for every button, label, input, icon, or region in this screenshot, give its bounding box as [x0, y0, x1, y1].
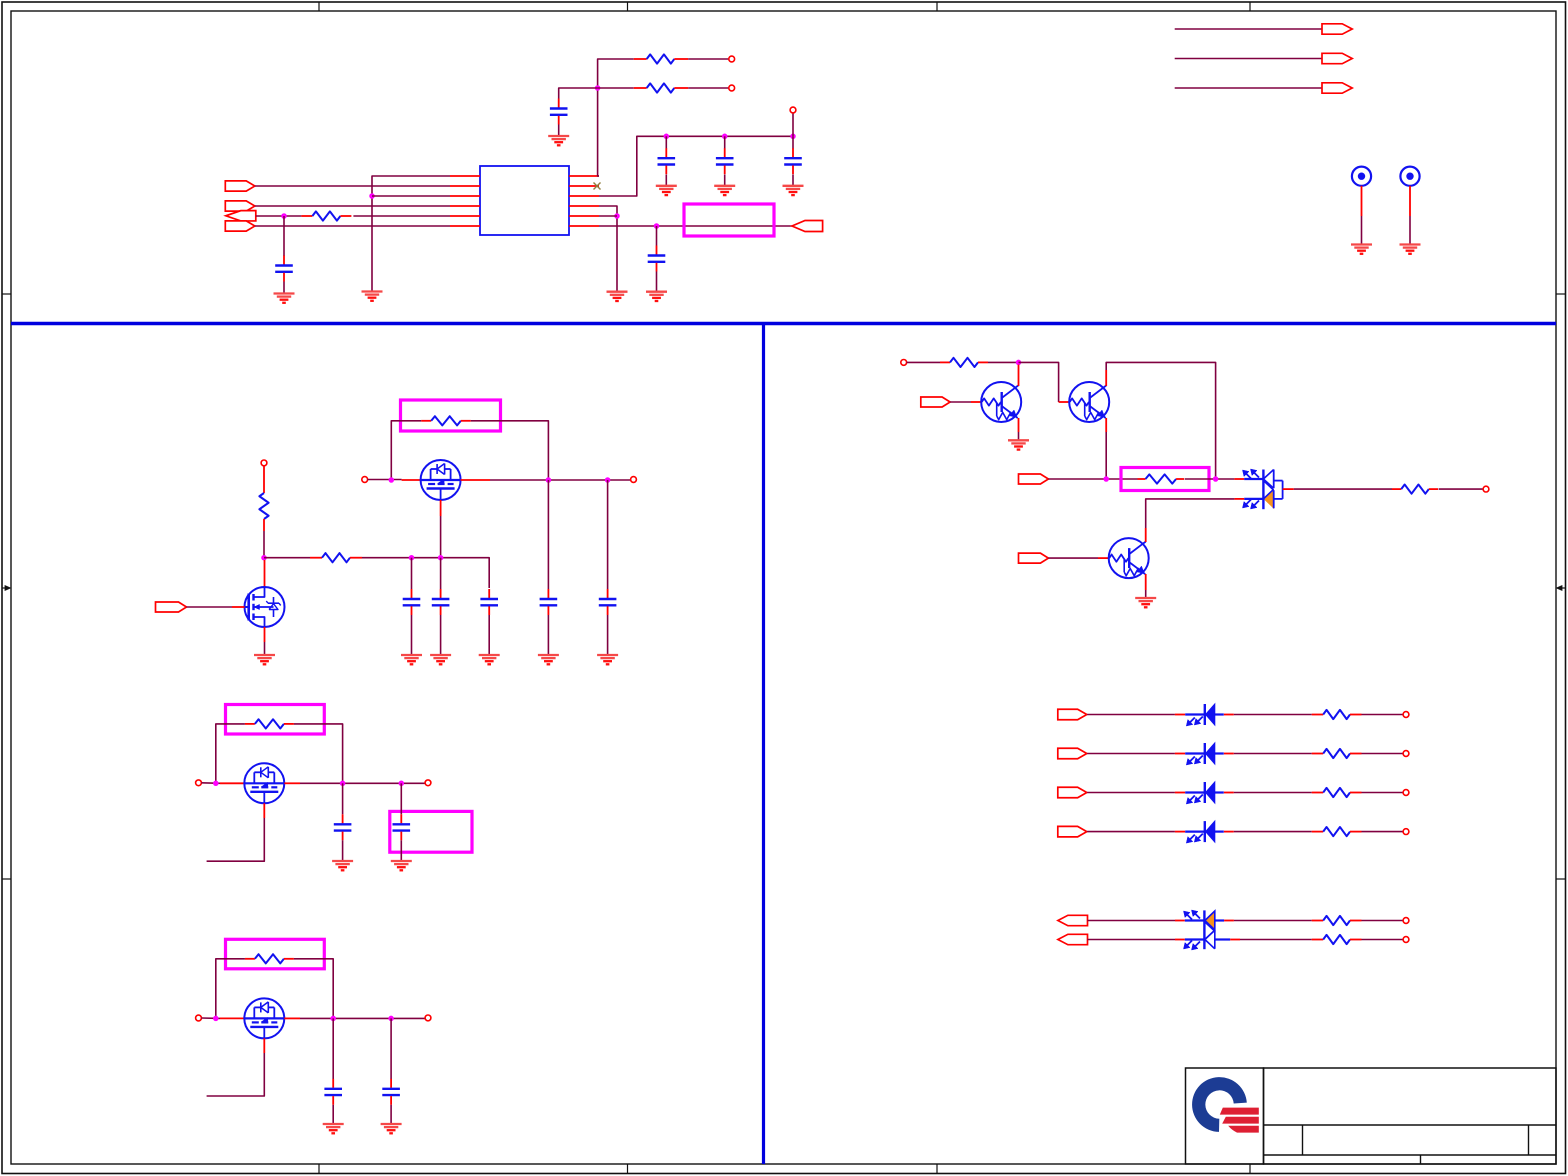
- junction Q5 collector junction: [1016, 360, 1022, 366]
- wire VIN to Q2: [368, 479, 402, 481]
- wire block3 cap1 stub: [332, 1018, 334, 1079]
- Q3 source lead: [284, 782, 300, 784]
- wire C6 ground stub: [656, 272, 658, 292]
- wire Q7 collector to D5: [1146, 499, 1235, 528]
- wire rail cap 1 ground stub: [665, 175, 667, 186]
- resistor R16: [1312, 916, 1362, 925]
- ground below C6: [646, 292, 667, 301]
- resistor R2: [634, 83, 688, 92]
- wire C2 to ground: [558, 125, 560, 137]
- title block row line lower: [1264, 1154, 1557, 1156]
- terminal block3 out: [425, 1015, 431, 1021]
- test point TP1: [1352, 167, 1371, 186]
- terminal pair lower return: [1403, 937, 1409, 943]
- wire gate cap 3 gnd stub: [488, 615, 490, 655]
- ground gate cap 2: [430, 655, 451, 664]
- terminal pair upper return: [1403, 918, 1409, 924]
- capacitor C6: [648, 246, 666, 272]
- ground block2 cap1: [332, 861, 353, 870]
- wire Q2 gate to RC: [440, 516, 442, 558]
- LED row 1 cathode lead: [1224, 714, 1234, 716]
- wire pair lower left: [1088, 939, 1176, 941]
- LED row 3 anode lead: [1175, 792, 1185, 794]
- wire U1 pin5 join: [599, 215, 617, 217]
- junction block3 out junction 1: [330, 1016, 336, 1022]
- wire U1 net to vertical: [372, 176, 450, 292]
- wire Q2 out net: [490, 479, 631, 481]
- Q3 drain lead: [220, 782, 244, 784]
- wire block2 cap2 gnd: [400, 840, 402, 861]
- terminal LED row 2 return: [1403, 751, 1409, 757]
- wire block3 cap1 gnd: [332, 1105, 334, 1124]
- wire P11 to R10: [1048, 478, 1137, 480]
- wire U1 pin3 to vertical: [372, 195, 450, 197]
- junction gate cap tap 2: [438, 555, 444, 561]
- wire Q1 source to ground: [264, 642, 266, 655]
- wire P1 to U1: [255, 185, 450, 187]
- wire R7 left down: [216, 724, 245, 783]
- Q5 base lead: [971, 401, 981, 403]
- wire R4 right to output: [471, 421, 549, 480]
- terminal R1 output: [729, 56, 735, 62]
- title block row line upper: [1264, 1124, 1557, 1126]
- port P9 enable: [156, 602, 187, 612]
- terminal block3 in: [196, 1015, 202, 1021]
- port P1: [225, 181, 255, 191]
- terminal LED return: [1483, 486, 1489, 492]
- wire Q5 emitter to ground: [1018, 432, 1020, 440]
- highlight box on R4: [401, 400, 501, 431]
- junction gate node: [261, 555, 267, 561]
- wire C1 to ground: [283, 282, 285, 294]
- junction P11 junction: [1103, 476, 1109, 482]
- wire pair lower right: [1362, 939, 1404, 941]
- terminal supply input: [790, 107, 796, 113]
- port P3: [226, 211, 256, 221]
- port P13: [1058, 709, 1087, 720]
- wire input to R9: [907, 361, 940, 363]
- capacitor C3: [658, 148, 676, 174]
- ground below C4: [714, 186, 735, 195]
- wire out cap 2 gnd stub: [607, 615, 609, 655]
- terminal LED row 3 return: [1403, 790, 1409, 796]
- pair lower cathode lead: [1230, 939, 1240, 941]
- ground below C2: [548, 136, 569, 145]
- LED D1: [1185, 704, 1224, 726]
- highlight box on U1 output: [684, 204, 774, 236]
- MOSFET Q2: [421, 460, 461, 500]
- wire block2 cap1 stub: [342, 783, 344, 814]
- port P12: [1019, 553, 1049, 563]
- port P14: [1058, 748, 1087, 759]
- wire P2 to U1: [255, 205, 450, 207]
- title block cell divider 1: [1302, 1125, 1304, 1155]
- wire D5 to R11: [1294, 488, 1392, 490]
- junction rail tap 1: [664, 134, 670, 140]
- wire U1 pin4 down: [599, 206, 617, 292]
- LED row 3 cathode lead: [1224, 792, 1234, 794]
- TP1 lead: [1361, 186, 1363, 216]
- pair upper anode lead: [1175, 920, 1185, 922]
- wire out cap 2 stub: [607, 480, 609, 589]
- wire gate cap 2 gnd stub: [440, 615, 442, 655]
- junction block2 in junction: [213, 781, 219, 787]
- U1 right pins: [569, 176, 599, 226]
- ground out cap 2: [597, 655, 618, 664]
- resistor R11: [1392, 485, 1438, 494]
- resistor R1: [634, 54, 688, 63]
- ground block2 cap2: [391, 861, 412, 870]
- wire LED row 4 right: [1362, 831, 1404, 833]
- U1 left pins: [450, 176, 480, 226]
- Q7 collector lead: [1145, 528, 1147, 542]
- LED D2: [1185, 743, 1224, 765]
- wire Q4 gate stub: [207, 1053, 265, 1096]
- transistor Q7: [1109, 538, 1149, 578]
- wire P4 to U1: [255, 225, 450, 227]
- terminal VOUT node: [631, 477, 637, 483]
- resistor R12: [1312, 710, 1362, 719]
- terminal pull-up top: [261, 460, 267, 466]
- port P4: [225, 221, 255, 231]
- Q7 base lead: [1098, 557, 1109, 559]
- ground below vertical: [362, 292, 383, 301]
- terminal LED row 4 return: [1403, 829, 1409, 835]
- Q5 emitter lead: [1018, 418, 1020, 432]
- port P18: [1058, 934, 1088, 944]
- wire P9 to Q1 gate: [187, 606, 233, 608]
- resistor R13: [1312, 749, 1362, 758]
- D5 lower lead: [1234, 498, 1244, 500]
- junction VIN junction: [389, 477, 395, 483]
- wire LED row 1 mid: [1234, 714, 1312, 716]
- highlight box on R10: [1121, 468, 1209, 491]
- resistor R8: [245, 954, 294, 963]
- wire Q6 emitter down: [1105, 432, 1107, 479]
- Q2 source lead: [461, 479, 490, 481]
- wire pair upper mid: [1234, 920, 1312, 922]
- LED row 4 cathode lead: [1224, 831, 1234, 833]
- resistor R15: [1312, 827, 1362, 836]
- capacitor C9: [480, 589, 498, 615]
- terminal R2 output: [729, 85, 735, 91]
- resistor R4: [421, 416, 471, 425]
- junction rail tap 3: [790, 134, 796, 140]
- junction vertical tap: [369, 193, 375, 199]
- port P6: [1322, 24, 1352, 34]
- test point TP2: [1400, 167, 1419, 186]
- capacitor C7: [403, 589, 421, 615]
- wire net to P6: [1175, 28, 1322, 30]
- wire U1 pin6 out: [599, 225, 792, 227]
- Q1 gate lead: [232, 606, 245, 608]
- wire block3 cap2 gnd: [390, 1105, 392, 1124]
- wire R8 right down: [294, 959, 333, 1019]
- D5 upper lead: [1234, 478, 1244, 480]
- wire block2 cap2 stub: [400, 783, 402, 814]
- wire collector node to Q6 base: [1019, 362, 1059, 402]
- wire C1 stub: [283, 216, 285, 256]
- title block outline: [1264, 1068, 1557, 1164]
- resistor R7: [245, 719, 294, 728]
- port P2: [225, 201, 255, 211]
- junction rail tap 2: [722, 134, 728, 140]
- port P7: [1322, 53, 1352, 63]
- wire R3 to U1: [353, 215, 450, 217]
- LED row 2 cathode lead: [1224, 753, 1234, 755]
- wire LED row 3 mid: [1234, 792, 1312, 794]
- wire rail cap 3 ground stub: [792, 175, 794, 186]
- Q2 drain lead: [402, 479, 421, 481]
- resistor R5: [259, 466, 268, 531]
- wire out cap 1 gnd stub: [547, 615, 549, 655]
- junction out junction 1: [546, 477, 552, 483]
- wire R9 to Q5 collector: [988, 361, 1019, 363]
- no-connect on U1 pin: [594, 183, 601, 190]
- wire pair upper left: [1088, 920, 1176, 922]
- capacitor C1: [275, 256, 293, 282]
- wire pair lower mid: [1240, 939, 1312, 941]
- LED D4: [1185, 821, 1224, 843]
- wire LED row 3 left: [1087, 792, 1175, 794]
- Q1 drain lead: [264, 560, 266, 587]
- MOSFET Q1: [245, 587, 285, 627]
- capacitor C14: [324, 1079, 342, 1105]
- port P10: [921, 397, 950, 407]
- wire LED row 2 right: [1362, 753, 1404, 755]
- wire P12 to Q7 base: [1048, 557, 1098, 559]
- ground block3 cap2: [381, 1124, 402, 1133]
- Q6 base lead: [1059, 401, 1070, 403]
- port P15: [1058, 787, 1087, 798]
- MOSFET Q3: [244, 763, 284, 803]
- wire gate cap 1 stub: [411, 558, 413, 589]
- resistor R10: [1138, 474, 1185, 483]
- wire block2 cap1 gnd: [342, 840, 344, 861]
- D5 output lead: [1283, 488, 1294, 490]
- wire R7 right down: [294, 724, 343, 783]
- Q2 gate lead: [440, 500, 442, 516]
- wire tap to C2: [559, 88, 598, 99]
- wire LED row 2 mid: [1234, 753, 1312, 755]
- wire TP2 ground wire: [1409, 216, 1411, 245]
- ground below Q7: [1135, 598, 1156, 607]
- wire R10 to D5: [1185, 478, 1235, 480]
- port P17: [1058, 915, 1088, 925]
- junction block3 out junction 2: [388, 1016, 394, 1022]
- capacitor C15: [382, 1079, 400, 1105]
- pair upper cathode lead: [1224, 920, 1234, 922]
- port P5 output: [792, 221, 823, 232]
- wire LED row 2 left: [1087, 753, 1175, 755]
- wire C6 stub: [656, 226, 658, 246]
- LED D3: [1185, 782, 1224, 804]
- title block cell divider 2: [1528, 1125, 1530, 1155]
- wire net to P8: [1175, 87, 1322, 89]
- Q6 emitter lead: [1105, 418, 1107, 432]
- ground below TP2: [1400, 245, 1421, 254]
- ground gate cap 1: [401, 655, 422, 664]
- left sheet alignment arrow: [2, 585, 11, 590]
- capacitor C5: [784, 148, 802, 174]
- resistor R9: [940, 358, 988, 367]
- capacitor C4: [716, 148, 734, 174]
- Q6 collector lead: [1105, 370, 1107, 386]
- port P16: [1058, 826, 1087, 837]
- terminal block2 in: [196, 780, 202, 786]
- highlight box on R7: [226, 705, 325, 735]
- blue horizontal section divider: [11, 322, 1556, 326]
- wire P3 to R3: [256, 215, 302, 217]
- terminal VIN node: [362, 477, 368, 483]
- junction D5 anode junction: [1213, 476, 1219, 482]
- Q4 source lead: [284, 1017, 300, 1019]
- terminal LED row 1 return: [1403, 712, 1409, 718]
- wire rail cap 1 stub: [665, 136, 667, 148]
- junction block2 out junction 2: [399, 781, 405, 787]
- wire rail cap 2 stub: [724, 136, 726, 148]
- wire P10 to Q5 base: [950, 401, 971, 403]
- terminal block2 out: [425, 780, 431, 786]
- ground below C1: [274, 294, 295, 303]
- capacitor C10: [540, 589, 558, 615]
- wire R6 to gate caps: [362, 558, 489, 588]
- wire LED row 3 right: [1362, 792, 1404, 794]
- junction pin4-5 join: [614, 213, 620, 219]
- junction resistor divider tap: [595, 85, 601, 91]
- wire LED row 4 left: [1087, 831, 1175, 833]
- wire gate cap 1 gnd stub: [411, 615, 413, 655]
- wire rail cap 3 stub: [792, 136, 794, 148]
- wire Q3 gate stub: [207, 818, 265, 861]
- title block logo cell: [1186, 1068, 1264, 1164]
- highlight box on C13: [390, 811, 472, 852]
- wire Q4 out net: [300, 1017, 425, 1019]
- wire R2 to terminal: [688, 87, 729, 89]
- resistor R3: [301, 211, 351, 220]
- wire LED row 1 left: [1087, 714, 1175, 716]
- ground below Q5: [1008, 440, 1029, 449]
- Q4 drain lead: [220, 1017, 244, 1019]
- ground block3 cap1: [323, 1124, 344, 1133]
- LED row 4 anode lead: [1175, 831, 1185, 833]
- wire in to Q4: [201, 1017, 220, 1019]
- LED row 1 anode lead: [1175, 714, 1185, 716]
- ground below Q1: [254, 655, 275, 664]
- wire rail to terminal: [792, 113, 794, 136]
- title block cell divider 3: [1420, 1155, 1422, 1164]
- resistor R6: [310, 553, 362, 562]
- junction C6 tap: [654, 223, 660, 229]
- wire U1 supply rail: [599, 136, 793, 196]
- wire net to P7: [1175, 58, 1322, 60]
- Q1 source lead: [264, 627, 266, 642]
- Q5 collector lead: [1018, 365, 1020, 387]
- junction out junction 2: [605, 477, 611, 483]
- TP2 lead: [1409, 186, 1411, 216]
- capacitor C13: [393, 814, 411, 840]
- company logo: [1192, 1077, 1259, 1132]
- wire Q6 collector loop: [1106, 362, 1215, 479]
- wire rail cap 2 ground stub: [724, 175, 726, 186]
- blue vertical section divider: [762, 324, 765, 1165]
- ground pins 4-5: [607, 292, 628, 301]
- wire U1 out up to resistors: [598, 59, 634, 176]
- resistor R14: [1312, 788, 1362, 797]
- transistor Q5: [981, 382, 1021, 422]
- wire R4 left to input: [391, 421, 421, 480]
- wire R1 to terminal: [688, 58, 729, 60]
- pair lower anode lead: [1175, 939, 1185, 941]
- Q4 gate lead: [263, 1038, 265, 1053]
- Q3 gate lead: [263, 803, 265, 818]
- ground below TP1: [1351, 245, 1372, 254]
- wire pair upper right: [1362, 920, 1404, 922]
- wire R5 to gate node: [263, 531, 265, 558]
- wire R11 to terminal: [1439, 488, 1484, 490]
- wire Q7 emitter to ground: [1145, 590, 1147, 598]
- capacitor C12: [334, 814, 352, 840]
- junction block2 out junction 1: [340, 781, 346, 787]
- right sheet alignment arrow: [1556, 585, 1566, 590]
- wire LED row 1 right: [1362, 714, 1404, 716]
- wire Q3 out net: [300, 782, 425, 784]
- wire TP1 ground wire: [1361, 216, 1363, 245]
- highlight box on R8: [226, 939, 325, 969]
- LED row 2 anode lead: [1175, 753, 1185, 755]
- port P11: [1019, 474, 1049, 484]
- wire gate node to R6: [264, 557, 310, 559]
- resistor R17: [1312, 935, 1362, 944]
- junction block3 in junction: [213, 1016, 219, 1022]
- Q7 emitter lead: [1145, 574, 1147, 590]
- bicolor LED D5: [1243, 469, 1283, 509]
- capacitor C8: [432, 589, 450, 615]
- wire R8 left down: [216, 959, 245, 1019]
- IC U1: [480, 166, 569, 235]
- ground out cap 1: [538, 655, 559, 664]
- wire gate cap 2 stub: [440, 558, 442, 589]
- wire in to Q3: [201, 782, 220, 785]
- terminal pull-up input: [901, 360, 907, 366]
- wire block3 cap2 stub: [390, 1018, 392, 1079]
- capacitor C2: [550, 99, 568, 125]
- wire out cap 1 stub: [547, 480, 549, 589]
- wire tap to R2: [598, 87, 634, 89]
- transistor Q6: [1069, 382, 1109, 422]
- ground below C5: [783, 186, 804, 195]
- junction on P3 net: [281, 213, 287, 219]
- ground gate cap 3: [479, 655, 500, 664]
- ground below C3: [656, 186, 677, 195]
- MOSFET Q4: [244, 998, 284, 1038]
- port P8: [1322, 83, 1352, 93]
- capacitor C11: [599, 589, 617, 615]
- junction gate cap tap 1: [409, 555, 415, 561]
- dual LED D6: [1184, 910, 1231, 950]
- wire LED row 4 mid: [1234, 831, 1312, 833]
